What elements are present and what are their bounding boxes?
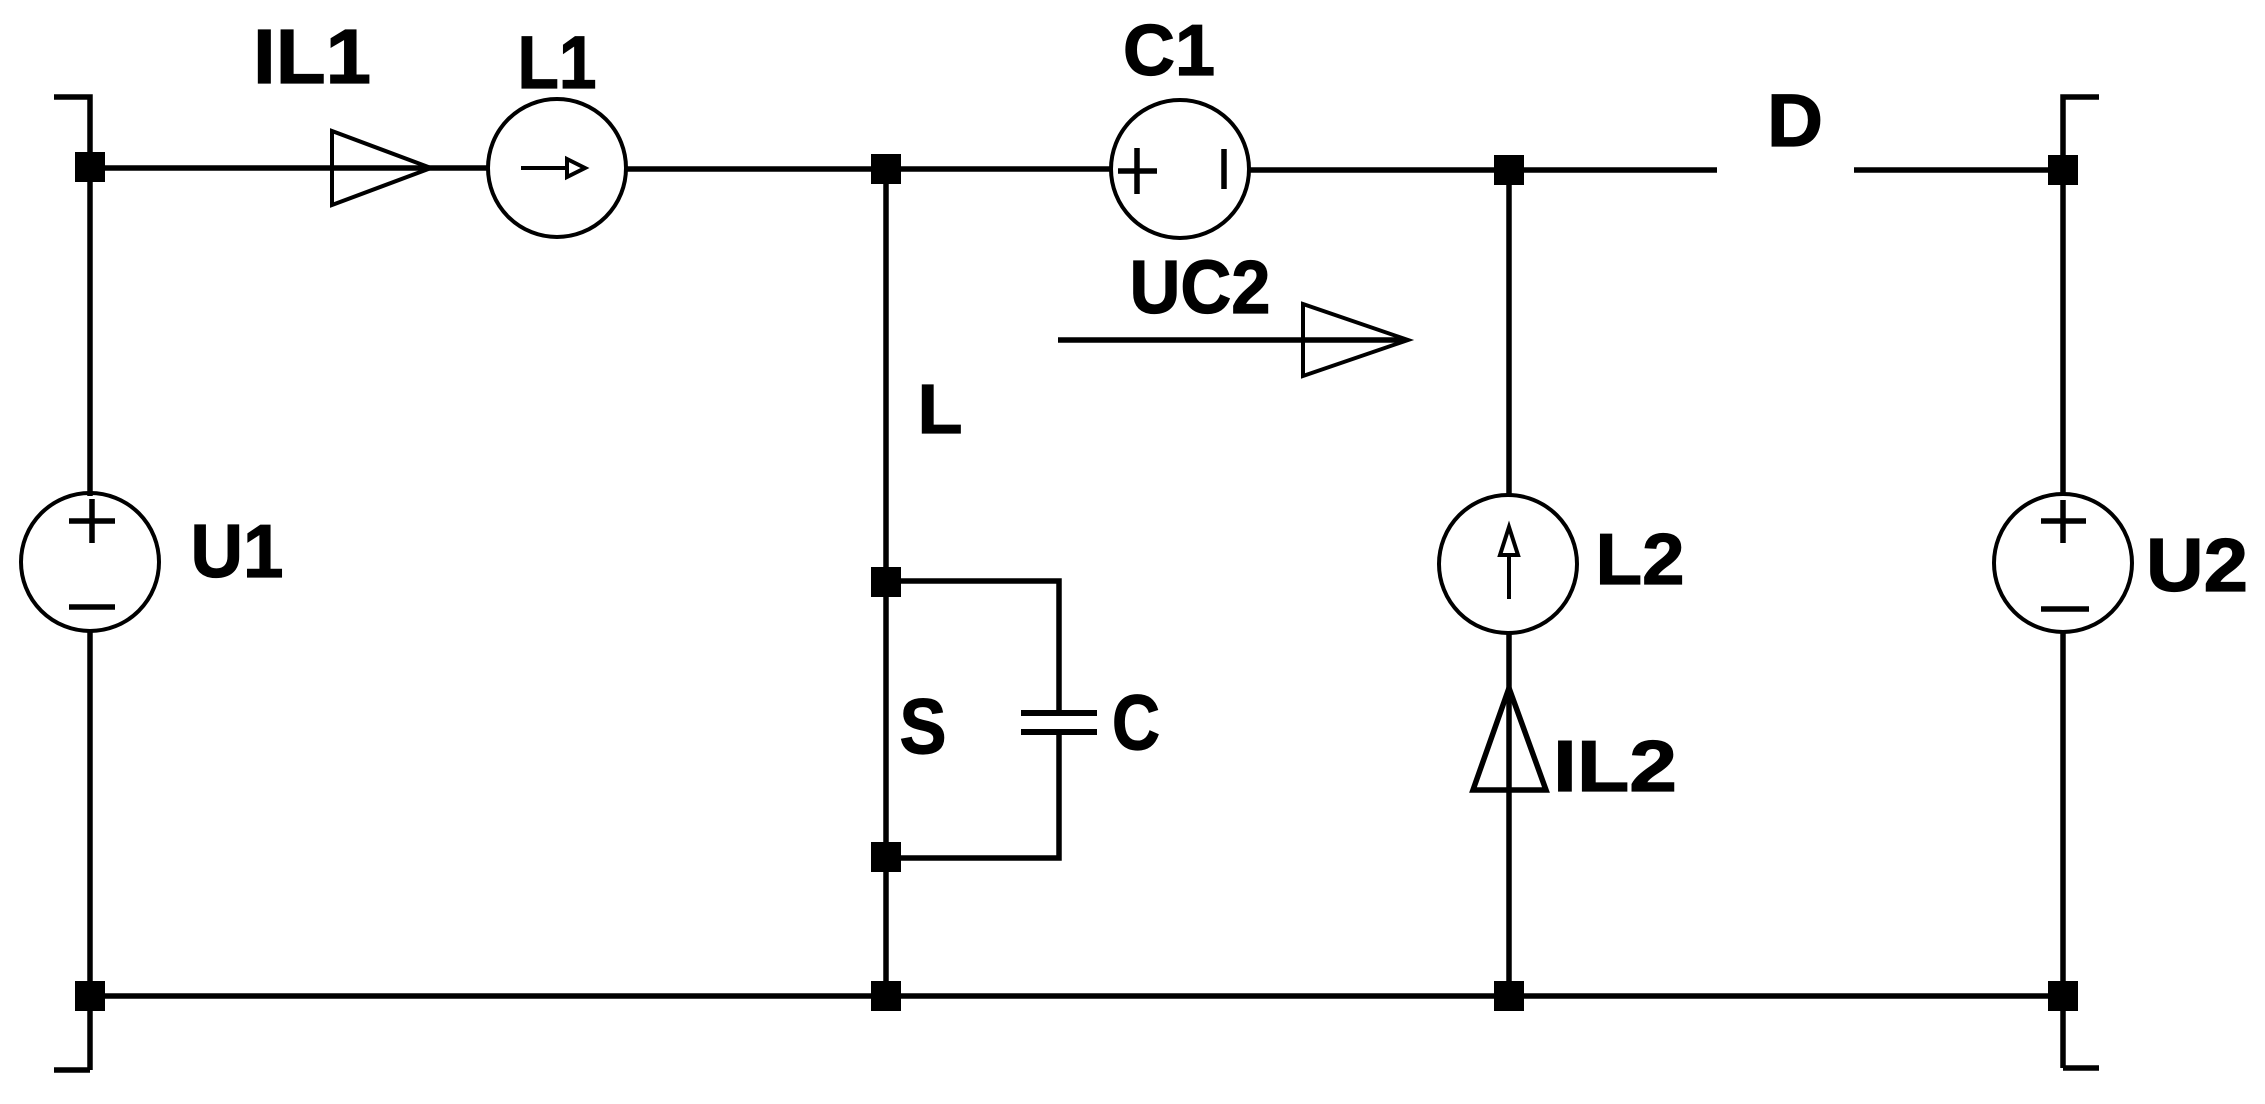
wire right rail lower xyxy=(2060,632,2066,1068)
U2 minus sign xyxy=(2041,606,2089,612)
node bottom-left xyxy=(75,981,105,1011)
wire S branch vertical xyxy=(883,168,889,996)
capacitor C top plate xyxy=(1021,710,1097,716)
U1 minus sign xyxy=(69,604,115,610)
node bottom S-branch xyxy=(871,981,901,1011)
svg-text:L: L xyxy=(918,370,963,448)
wire L2 branch upper xyxy=(1506,170,1512,497)
voltage source U2 xyxy=(1994,494,2132,632)
arrow IL1 xyxy=(332,131,431,205)
terminal bracket top-left xyxy=(54,97,90,167)
current source L2 xyxy=(1439,495,1577,633)
current source L1 xyxy=(488,99,626,237)
svg-text:D: D xyxy=(1767,79,1823,162)
U1 plus sign xyxy=(69,499,115,543)
L1 inner arrow xyxy=(521,166,567,170)
node top L2-branch xyxy=(1494,155,1524,185)
terminal bracket bottom-left xyxy=(54,1067,90,1073)
svg-text:IL2: IL2 xyxy=(1553,727,1677,807)
node S lower xyxy=(871,842,901,872)
wire right rail upper xyxy=(2060,170,2066,496)
node top-right xyxy=(2048,155,2078,185)
wire capacitor loop bottom xyxy=(886,735,1059,858)
svg-text:UC2: UC2 xyxy=(1130,245,1271,329)
wire top segment 2 (L1 to C1) xyxy=(626,166,1112,172)
svg-text:U2: U2 xyxy=(2146,523,2248,607)
node top-left xyxy=(75,152,105,182)
node top S-branch xyxy=(871,154,901,184)
C1 bar xyxy=(1221,149,1227,189)
svg-text:L2: L2 xyxy=(1596,520,1685,600)
svg-text:IL1: IL1 xyxy=(253,14,371,100)
arrow UC2 xyxy=(1058,337,1404,343)
wire top segment 1 (left node to L1) xyxy=(90,165,489,171)
capacitor C bottom plate xyxy=(1021,729,1097,735)
terminal bracket top-right xyxy=(2063,97,2099,170)
svg-text:U1: U1 xyxy=(191,509,284,593)
node bottom L2-branch xyxy=(1494,981,1524,1011)
wire left rail lower (U1 bottom to bottom bracket) xyxy=(87,631,93,1070)
terminal bracket bottom-right xyxy=(2063,1065,2099,1071)
svg-text:L1: L1 xyxy=(518,21,597,104)
arrow IL2 xyxy=(1473,688,1546,790)
svg-text:C: C xyxy=(1112,678,1160,766)
node bottom-right xyxy=(2048,981,2078,1011)
svg-text:S: S xyxy=(900,682,947,770)
wire top segment 4 (D gap to right node) xyxy=(1854,167,2063,173)
wire left rail upper (node to U1 top) xyxy=(87,167,93,496)
voltage source C1 xyxy=(1111,100,1249,238)
wire bottom rail xyxy=(90,993,2063,999)
wire L2 branch lower xyxy=(1506,631,1512,996)
svg-text:C1: C1 xyxy=(1123,11,1215,91)
L2 inner arrow xyxy=(1500,527,1518,555)
wire capacitor loop top xyxy=(886,581,1059,711)
wire top segment 3 (C1 to D gap) xyxy=(1248,167,1717,173)
C1 plus sign xyxy=(1118,148,1157,194)
node S upper xyxy=(871,567,901,597)
voltage source U1 xyxy=(21,493,159,631)
U2 plus sign xyxy=(2041,500,2086,543)
